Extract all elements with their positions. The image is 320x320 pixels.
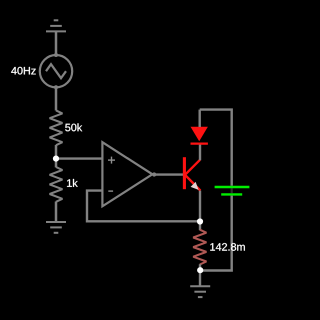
resistor R3 142.8m	[193, 230, 206, 265]
wire R3 leads	[199, 264, 201, 286]
wire node A to op-amp + input	[56, 157, 102, 159]
wire R2 to ground G2	[55, 202, 58, 223]
wire op-amp minus input (feedback)	[87, 191, 200, 222]
wire top rail	[200, 110, 232, 186]
AC source V1 (triangle wave, 40Hz)	[40, 55, 72, 87]
battery B1 bottom plate	[221, 193, 242, 195]
wire Q1 collector to diode D1	[199, 144, 201, 160]
battery B1 top plate	[215, 186, 250, 188]
op-amp plus sign	[108, 157, 115, 164]
resistor R2 1k	[50, 167, 63, 202]
wire battery bottom to node C	[200, 196, 232, 271]
label 1k	[67, 179, 78, 187]
diode D1 cathode bar	[191, 142, 208, 144]
label 40Hz	[11, 67, 36, 75]
wire R1 to node A	[55, 145, 58, 167]
post dot AC source top	[54, 53, 58, 57]
node B junction dot	[197, 218, 203, 224]
wire diode D1 to top rail	[198, 110, 200, 127]
resistor R1 50k	[50, 110, 63, 145]
ground G2 (bottom left)	[46, 222, 66, 233]
wire ground to AC source top	[55, 31, 58, 55]
diode D1 triangle	[191, 127, 208, 142]
transistor Q1 base bar	[183, 157, 186, 189]
battery faint lead between plates	[231, 188, 233, 193]
transistor Q1 emitter arrow	[191, 182, 199, 190]
post dot op-amp output	[152, 172, 156, 176]
wire op-amp output to Q1 base	[152, 173, 183, 175]
op-amp U1	[102, 142, 152, 206]
post dot AC source bottom	[54, 85, 58, 89]
transistor Q1 collector lead	[185, 160, 200, 175]
label 50k	[65, 123, 82, 131]
node A junction dot	[53, 156, 59, 162]
node C junction dot	[197, 267, 203, 273]
wire AC source bottom to R1	[55, 87, 58, 110]
wire node B to resistor R3	[199, 191, 201, 231]
label 142.8m	[210, 243, 245, 251]
transistor Q1 emitter lead	[185, 175, 200, 191]
ground G1 (top, above AC source)	[46, 20, 66, 31]
op-amp minus sign	[108, 190, 113, 192]
ground G3 (bottom right)	[190, 286, 210, 297]
